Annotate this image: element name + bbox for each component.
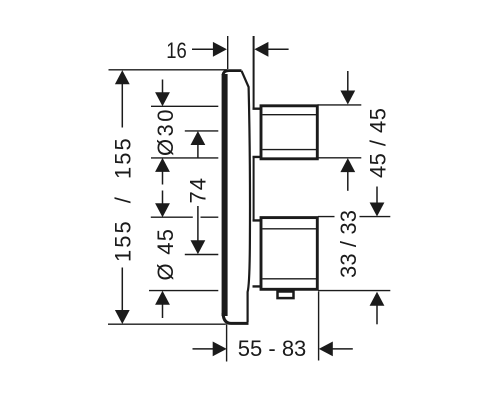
svg-text:16: 16 [166,38,187,63]
plate top edge [223,71,242,75]
arrowhead 33/33 pointing down [370,203,385,217]
extension line: lower handle bottom, right side [318,290,390,292]
svg-text:74: 74 [185,177,210,203]
arrowhead 155/155 pointing down [115,310,130,324]
dimension 16 left arrow line [192,48,214,50]
top handle outer body [261,106,317,159]
plate front face (thick left edge) [222,74,228,316]
dimension line 33/33 upper tail [376,187,378,204]
arrowhead 55-83 pointing left [319,342,333,357]
dimension 55-83 left arrow line [193,348,214,350]
dimension line Ø45 upper tail [162,191,164,205]
extension line: top handle bottom, right side [318,157,362,159]
dimension line 74 lower segment [197,206,199,242]
arrowhead Ø30 pointing up [155,158,170,172]
dimension 16 right arrow line [268,48,289,50]
dimension line 45/45 lower tail [347,171,349,191]
extension line: top handle top, left side [151,105,218,107]
dimension line 74 upper segment [197,144,199,158]
plate bottom edge [223,313,249,323]
lower handle inner chamfer lines [263,229,317,279]
arrowhead 155/155 pointing up [115,70,130,84]
arrowhead 16 pointing left [254,42,268,57]
arrowhead 45/45 pointing up [340,158,355,172]
extension line: plate top [109,69,228,71]
dimension 155/155 line upper segment [121,83,123,128]
arrowhead Ø45 pointing down [155,203,170,217]
arrowhead 55-83 pointing right [213,342,227,357]
lower handle outer body [261,218,317,290]
stem of lower handle [253,220,262,286]
top handle inner chamfer lines [263,115,317,150]
dimension line Ø30 lower tail [162,171,164,185]
dimension line 45/45 upper tail [347,71,349,92]
svg-text:155 / 155: 155 / 155 [111,136,136,262]
bottom tab of lower handle [278,292,294,299]
extension line: lower handle top, left side [151,216,219,218]
plate top-right slope and right crease edge [242,71,251,322]
extension line: lower handle top, right side [318,216,390,218]
stem of top handle [253,109,262,157]
svg-text:55 - 83: 55 - 83 [238,336,306,361]
dimension line 33/33 lower tail [376,305,378,324]
extension line: lower handle bottom, left side [149,290,218,292]
svg-text:Ø30: Ø30 [153,110,178,157]
arrowhead 74 pointing down [191,240,206,254]
extension line: plate bottom [108,323,226,325]
svg-text:33 / 33: 33 / 33 [336,210,361,278]
extension line: top handle top, right side [318,104,362,106]
dimension line Ø30 upper tail [162,80,164,94]
arrowhead 16 pointing right [213,42,227,57]
arrowhead 74 pointing up [191,131,206,145]
arrowhead Ø45 pointing up [155,291,170,305]
svg-text:45 / 45: 45 / 45 [366,108,391,178]
extension line: top handle centre for 74 [185,130,219,132]
dimension 155/155 line lower segment [121,268,123,312]
extension line: top handle bottom, left side [151,157,218,159]
extension line: vertical, front face for 16 [227,36,229,69]
extension line: lower handle centre for 74 [185,254,219,256]
arrowhead 45/45 pointing down [340,91,355,105]
svg-text:Ø 45: Ø 45 [153,229,178,281]
arrowhead Ø30 pointing down [155,92,170,106]
extension line: vertical, handle front face for 55-83 [318,292,320,361]
plate back edge line (also extension for 16) [253,36,255,220]
extension line: vertical, plate front at bottom for 55-83 [226,324,228,361]
dimension 55-83 right arrow line [332,348,353,350]
arrowhead 33/33 pointing up [370,292,385,306]
dimension line Ø45 lower tail [162,304,164,318]
